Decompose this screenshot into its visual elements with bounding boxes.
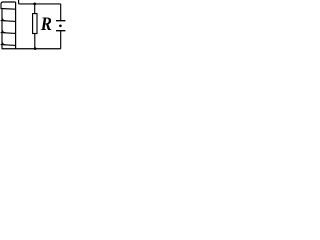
svg-text:R: R (40, 13, 52, 34)
